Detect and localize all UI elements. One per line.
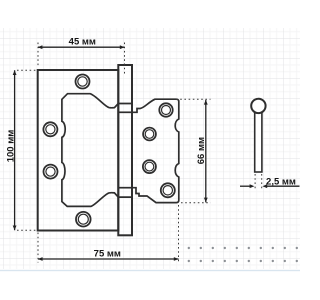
- screw hole left-leaf top-center: [76, 75, 90, 89]
- hinge body fill (left leaf + barrel + right leaf): [38, 65, 179, 235]
- dimension 100mm extension line bottom: [17, 229, 36, 231]
- dimension 75mm extension line right: [178, 205, 180, 263]
- dimension 2.5mm line right with arrow: [267, 185, 300, 187]
- dimension 100mm line: [14, 70, 16, 230]
- hinge pin rod: [255, 111, 262, 172]
- svg-text:100 мм: 100 мм: [6, 130, 17, 163]
- left leaf inner contour: [62, 94, 132, 207]
- dimension 66mm extension line top: [176, 98, 211, 100]
- dimension 66mm line: [205, 100, 207, 203]
- dot row 2: [188, 260, 298, 262]
- barrel joint line bottom (right leaf neck): [118, 187, 132, 189]
- svg-text:2,5 мм: 2,5 мм: [266, 176, 296, 187]
- dot row 1: [188, 247, 298, 249]
- screw hole right-leaf top: [159, 103, 172, 116]
- dimension 2.5mm line left with arrow: [240, 185, 250, 187]
- screw hole left-leaf lower-left: [44, 165, 58, 179]
- graph paper area: [0, 28, 300, 269]
- barrel outline: [118, 65, 132, 235]
- svg-text:75 мм: 75 мм: [94, 249, 121, 260]
- screw hole right-leaf bottom: [161, 183, 175, 197]
- dimension 75mm extension line left: [37, 233, 39, 263]
- dimension 45mm line: [38, 46, 125, 48]
- barrel joint line top (right leaf neck): [118, 111, 132, 113]
- dimension 45mm extension line left: [37, 43, 39, 68]
- screw hole right-leaf upper-left: [143, 128, 156, 141]
- dimension 2.5mm extension line right: [261, 174, 263, 189]
- right leaf outline: [132, 99, 179, 202]
- screw hole left-leaf upper-left: [43, 122, 57, 136]
- dimension 2.5mm extension line left: [254, 174, 256, 189]
- dimension 75mm line: [38, 258, 179, 260]
- dimension 45mm extension line right: [124, 43, 126, 76]
- screw hole left-leaf bottom-center: [76, 212, 91, 227]
- svg-text:45 мм: 45 мм: [69, 37, 96, 48]
- bottom separator line: [0, 270, 300, 271]
- dimension 66mm extension line bottom: [181, 202, 211, 204]
- screw hole right-leaf lower-left: [143, 160, 156, 173]
- dimension 100mm extension line top: [17, 69, 36, 71]
- svg-text:66 мм: 66 мм: [196, 137, 207, 164]
- left leaf outline: [38, 70, 119, 231]
- hinge pin ball head: [251, 99, 265, 113]
